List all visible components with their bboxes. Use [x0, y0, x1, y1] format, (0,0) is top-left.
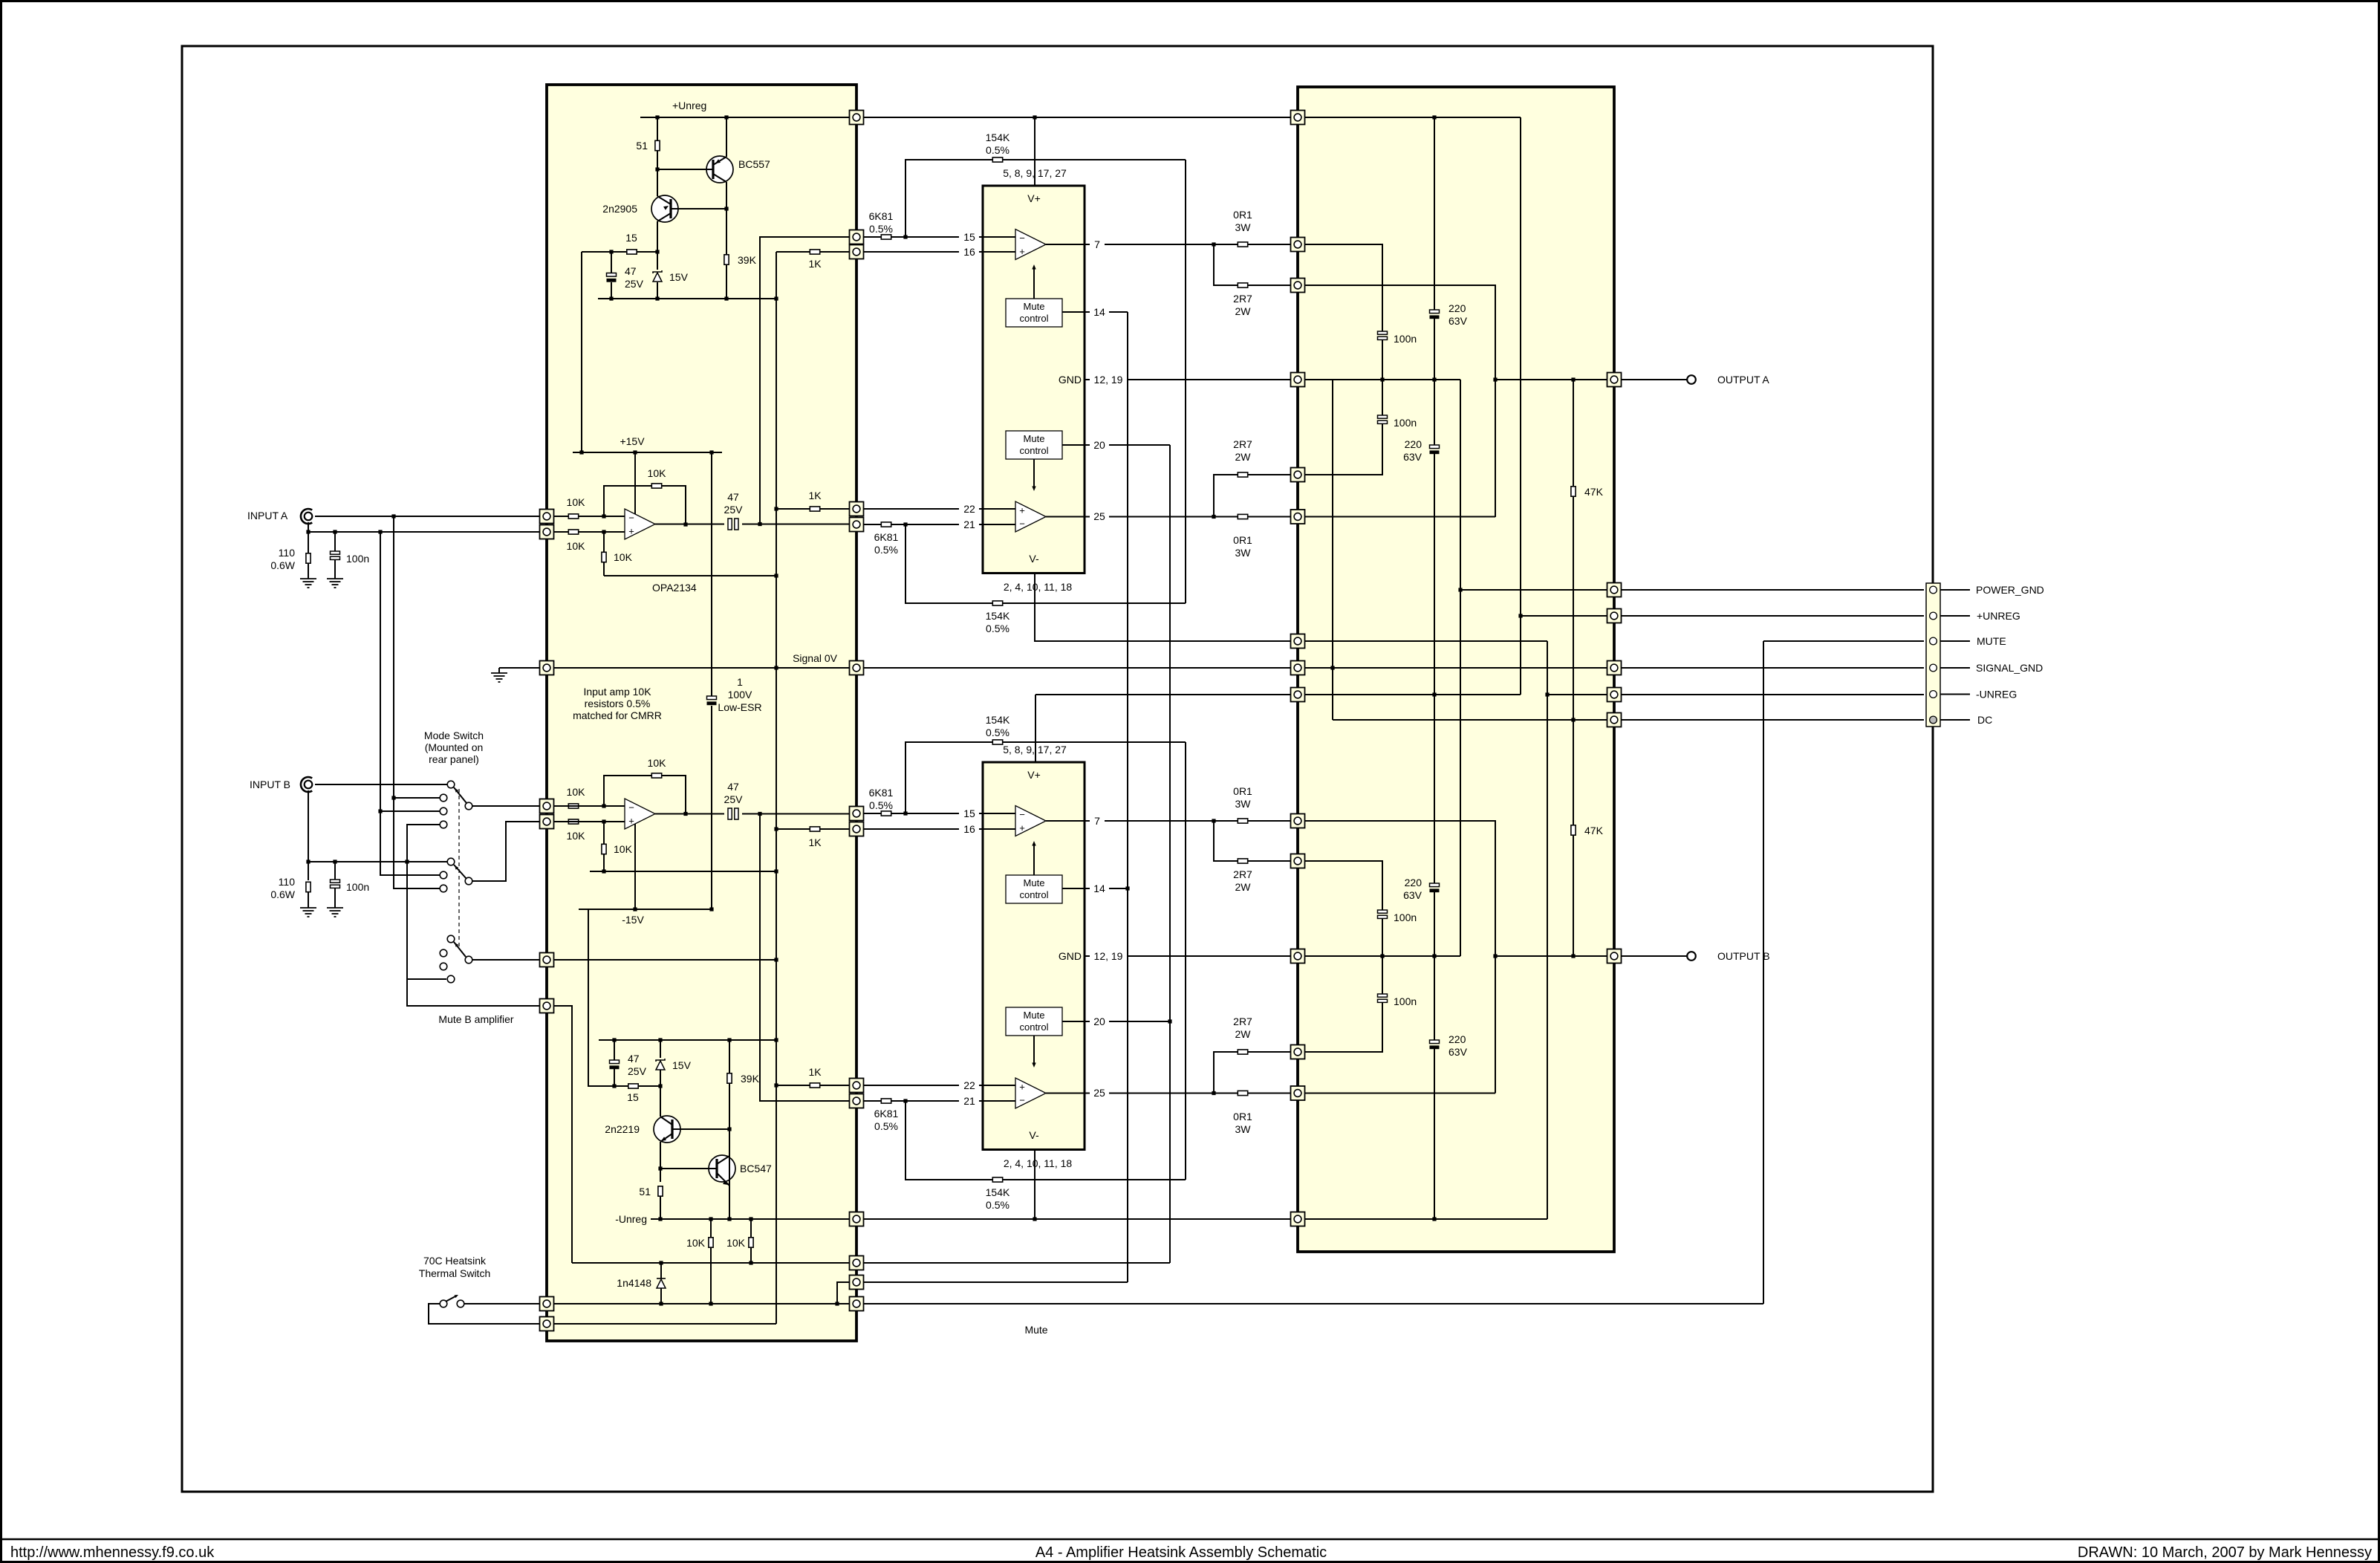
node reg A bottom at zener [655, 296, 659, 300]
node opamp A output to feedback [683, 522, 687, 526]
wire bias B to signal bus [590, 871, 776, 872]
wire pin7 B tick [1085, 820, 1090, 822]
wire mute bus 2 bottom row [863, 1262, 1170, 1264]
resistor 6K81 0.5% (chip B pin15) [881, 811, 891, 816]
wire chip B pin16 inside [983, 828, 1015, 830]
wire 154K B2 to east riser [1003, 1179, 1186, 1180]
pad 2R7 B2 right block west [1291, 1045, 1305, 1059]
wire SIGNAL_GND row inside [1304, 667, 1607, 669]
wire 1K A1 to pad [820, 251, 850, 253]
wire Mute bottom row [863, 1303, 1763, 1304]
svg-text:0R1: 0R1 [1233, 1111, 1252, 1122]
svg-text:2W: 2W [1235, 1028, 1252, 1040]
pad input A return at block edge [540, 525, 554, 539]
node signal bus at 1K A [774, 507, 778, 510]
capacitor 47 25V (output series B) [728, 808, 738, 819]
pad SIGNAL_GND right block west [1291, 661, 1305, 675]
node reg A bottom to signal bus [774, 296, 778, 300]
wire 100n A1 to GND row [1382, 340, 1383, 380]
node 15R zener junction [655, 250, 659, 253]
svg-text:16: 16 [963, 823, 975, 835]
node -15V at rail cap [709, 907, 713, 911]
svg-text:25V: 25V [724, 504, 744, 516]
svg-text:2R7: 2R7 [1233, 868, 1252, 880]
wire BC547 column to -Unreg [729, 1129, 730, 1219]
pad -unreg feed right block west [1291, 634, 1305, 649]
wire series cap A to pad [742, 524, 850, 525]
resistor 1K (chip B +in upper) [810, 827, 819, 831]
svg-text:control: control [1019, 1021, 1048, 1033]
svg-text:47: 47 [727, 781, 739, 793]
pad chip A pin16 feed [850, 245, 864, 259]
wire chip B pin15 inside [983, 813, 1015, 814]
node input A return at connector [306, 530, 310, 533]
svg-text:154K: 154K [986, 610, 1010, 622]
wire 39K B column [729, 1040, 730, 1073]
node mute aux jog [835, 1302, 839, 1305]
svg-text:12, 19: 12, 19 [1094, 374, 1123, 386]
wire 154K A2 loop [905, 524, 992, 603]
wire 2R7 B1 to 100n B1 [1304, 861, 1382, 910]
connector pin +UNREG [1930, 612, 1937, 620]
wire chip A upper output inside [1046, 244, 1085, 245]
resistor 2R7 2W (chip A upper zobel) [1238, 283, 1247, 287]
resistor 110 0.6W (input B termination) [306, 882, 310, 891]
wire pin20 B row [1109, 1021, 1170, 1022]
svg-text:21: 21 [963, 519, 975, 530]
switch S2 pole contact [465, 956, 472, 964]
resistor 154K 0.5% (chip B upper fb) [992, 740, 1002, 744]
svg-text:OUTPUT A: OUTPUT A [1717, 374, 1769, 386]
svg-text:OPA2134: OPA2134 [652, 582, 697, 594]
pad OUTPUT B right block east [1607, 949, 1622, 964]
capacitor 47 25V (output series A) [728, 519, 738, 530]
svg-text:1K: 1K [808, 836, 822, 848]
svg-text:0.5%: 0.5% [869, 223, 893, 235]
svg-text:GND: GND [1059, 950, 1082, 962]
svg-text:0.6W: 0.6W [270, 888, 295, 900]
wire -Unreg B inside right block [1304, 1218, 1547, 1220]
wire -unreg riser east [1547, 641, 1548, 1219]
svg-text:10K: 10K [567, 496, 586, 508]
svg-text:2W: 2W [1235, 451, 1252, 463]
node 220uF B2 bottom on -unreg [1432, 1217, 1436, 1221]
svg-text:Input amp 10K: Input amp 10K [583, 686, 651, 698]
wire inter-rail cap column [711, 452, 712, 696]
svg-text:3W: 3W [1235, 1123, 1252, 1135]
svg-text:+: + [1019, 246, 1025, 257]
capacitor 100n (zobel A lower) [1378, 415, 1388, 423]
2n2219 base wire [672, 1128, 729, 1130]
svg-text:A4 - Amplifier Heatsink Assemb: A4 - Amplifier Heatsink Assembly Schemat… [1035, 1544, 1327, 1561]
mute control block A2 [1006, 431, 1062, 459]
node x548 at input B return [405, 860, 409, 863]
wire +Unreg across gap [863, 117, 1291, 118]
BC557 base wire [657, 169, 713, 170]
svg-text:10K: 10K [726, 1237, 746, 1249]
node 100n B top [333, 860, 336, 863]
svg-text:100V: 100V [728, 689, 752, 701]
svg-text:10K: 10K [648, 467, 667, 479]
node A-return stub [378, 809, 382, 813]
chip U2 body (channel B power amp IC) [983, 762, 1085, 1150]
op-amp U3A OPA2134 (input buffer A) [625, 509, 655, 539]
wire -UNREG row east [1547, 694, 1607, 695]
resistor 1K (chip B +in lower) [810, 1083, 819, 1088]
wire -Unreg B rail across gap [863, 1218, 1291, 1220]
wire A-hot stub [394, 797, 440, 799]
capacitor 1 100V Low-ESR (rail decoupling) [707, 696, 717, 705]
wire pin21 B row [863, 1100, 959, 1102]
switch S1b fixed contact (input B return) [447, 858, 455, 865]
wire signal gnd tie riser [1332, 380, 1333, 720]
wire feedback A upper [604, 486, 686, 524]
wire 47uF A column [611, 252, 612, 273]
wire pin16 B row [863, 828, 959, 830]
wire pin14 B tick [1085, 888, 1090, 889]
wire chip B pin21 inside [983, 1100, 1015, 1102]
svg-text:GND: GND [1059, 374, 1082, 386]
node A-hot stub [391, 796, 395, 799]
resistor 6K81 0.5% (chip A pin15) [881, 235, 891, 239]
mute control block B1 [1006, 875, 1062, 903]
wire pin15 A row [863, 236, 959, 238]
wire -15V rail [579, 909, 712, 910]
wire OUTPUT A row east [1495, 379, 1607, 380]
node diode top on mute drive row [659, 1261, 663, 1264]
2n2905 base wire [671, 208, 726, 209]
svg-text:INPUT A: INPUT A [247, 510, 288, 521]
ground symbol input B termination [300, 908, 316, 917]
footer separator line [0, 1538, 2380, 1541]
wire -UNREG to connector [1621, 694, 1924, 695]
node mode select at bus [774, 958, 778, 961]
node 2R7 A2 branch [1212, 515, 1215, 519]
svg-text:0.5%: 0.5% [874, 1120, 898, 1132]
arrow mute A1 to opamp [1032, 264, 1035, 270]
wire +UNREG stub [1940, 615, 1970, 617]
wire +Unreg inside right block [1304, 117, 1521, 118]
pad +UNREG right block east [1607, 609, 1622, 623]
pad 2R7 A1 right block west [1291, 279, 1305, 293]
svg-text:39K: 39K [741, 1073, 760, 1085]
svg-text:+: + [628, 816, 634, 827]
transistor Q4 BC547 [709, 1155, 735, 1182]
wire SIGNAL_GND to connector [1621, 667, 1924, 669]
connector strip body [1926, 583, 1940, 727]
wire 100n A to ground [334, 560, 336, 579]
wire chip A pin15 inside [983, 236, 1015, 238]
svg-text:Thermal Switch: Thermal Switch [419, 1267, 490, 1279]
svg-text:10K: 10K [614, 843, 633, 855]
svg-text:(Mounted on: (Mounted on [425, 741, 484, 753]
pad GND A right block west [1291, 373, 1305, 387]
node reg B rail at 39K [727, 1038, 731, 1042]
wire 220uF column [1434, 117, 1435, 310]
svg-text:51: 51 [639, 1186, 651, 1198]
BC547 base wire [660, 1168, 717, 1169]
wire 154K A1 loop [905, 160, 992, 237]
wire -15V stub to opamp B [634, 824, 636, 909]
wire opamp A output [655, 524, 724, 525]
node 47uF A top [609, 250, 613, 253]
pad -Unreg B right block west [1291, 1212, 1305, 1226]
svg-text:25V: 25V [625, 278, 644, 290]
arrow mute B2 to opamp [1032, 1063, 1035, 1068]
resistor 1K (chip A pin16 feed) [810, 250, 819, 254]
wire GND B row to 100n B2 [1382, 956, 1383, 994]
wire 100n A2 to 2R7 A2 pad [1304, 424, 1382, 475]
op-amp chip B lower [1015, 1078, 1046, 1108]
wire mute drive row (pin20s) [572, 1262, 850, 1264]
wire 39K to bottom rail [726, 264, 727, 299]
svg-text:15: 15 [963, 808, 975, 819]
resistor 0R1 3W (chip A upper out) [1238, 242, 1247, 247]
wire -Unreg rail in left block [651, 1218, 850, 1220]
output terminal OUTPUT A [1687, 375, 1696, 384]
svg-text:http://www.mhennessy.f9.co.uk: http://www.mhennessy.f9.co.uk [10, 1544, 215, 1561]
zener diode 15V (reg B) [656, 1059, 665, 1070]
svg-text:25V: 25V [628, 1065, 647, 1077]
svg-text:154K: 154K [986, 131, 1010, 143]
wire chip A pin22 inside [983, 508, 1015, 510]
node 2R7 B2 branch [1212, 1091, 1215, 1095]
wire GND row to 100n A2 [1382, 380, 1383, 415]
BC547 emitter arrow [723, 1180, 728, 1185]
pad mute aux east [850, 1276, 864, 1290]
svg-text:110: 110 [279, 876, 296, 888]
svg-text:22: 22 [963, 503, 975, 515]
svg-text:+: + [1019, 505, 1025, 516]
svg-text:15: 15 [627, 1091, 639, 1103]
2n2219 collector/emitter diagonals [660, 1117, 672, 1125]
node 47uF B top [612, 1038, 616, 1042]
op-amp U3B OPA2134 (input buffer B) [625, 799, 655, 829]
pad -UNREG right block east [1607, 688, 1622, 702]
wire thermal switch right to pad [464, 1303, 540, 1304]
node BC547 base [658, 1166, 662, 1170]
node output A riser at OUTPUT row [1493, 377, 1497, 381]
resistor 10K (input A hot) [568, 514, 578, 519]
wire opamp B output [655, 813, 724, 815]
wire 110B to ground [308, 892, 309, 908]
svg-text:3W: 3W [1235, 547, 1252, 559]
svg-text:1K: 1K [808, 258, 822, 270]
svg-text:1K: 1K [808, 490, 822, 501]
wire pin22 B row [863, 1085, 959, 1086]
wire +15V stub to opamp A [634, 452, 636, 514]
wire mute B stub [407, 978, 446, 980]
node input B return at connector [306, 860, 310, 863]
svg-text:10K: 10K [686, 1237, 706, 1249]
wire chip B V- drop to -unreg B rail [1034, 1150, 1035, 1220]
svg-text:Mute: Mute [1024, 433, 1045, 444]
pad mute row east [850, 1297, 864, 1311]
resistor 0R1 3W (chip A lower out) [1238, 514, 1247, 519]
wire pin15 B row [863, 813, 959, 814]
wire -unreg feed inside right block [1304, 640, 1547, 642]
resistor 47K (output A bleed) [1571, 487, 1576, 496]
resistor 15 (reg B) [628, 1084, 638, 1088]
wire connector A sleeve drop [308, 522, 309, 553]
resistor 10K (input B return) [568, 819, 578, 824]
wire BC557 column lower to 39K [726, 182, 727, 255]
wire mode switch feed from A hot (x=530) [394, 516, 440, 888]
wire input B hot to switch [315, 784, 447, 785]
node +15V at rail cap [709, 450, 713, 454]
wire 100n B to ground [334, 888, 336, 909]
wire 1n4148 column [660, 1263, 662, 1278]
pad mute B amplifier [540, 999, 554, 1013]
switch S1b arrow [455, 865, 458, 870]
svg-text:3W: 3W [1235, 798, 1252, 810]
svg-text:100n: 100n [1394, 417, 1417, 429]
svg-text:47: 47 [625, 265, 637, 277]
resistor 51 (reg B) [658, 1186, 663, 1196]
wire 154K B2 loop [905, 1101, 992, 1180]
pad chip B pin22 feed [850, 1079, 864, 1093]
connector pin MUTE [1930, 637, 1937, 645]
switch S1a pole contact [465, 802, 472, 810]
stub contact lower A-hot [440, 885, 447, 892]
wire signal 0V inside left block [553, 667, 850, 669]
wire mute B amp run [407, 979, 540, 1006]
wire pin16 A row [863, 251, 959, 253]
resistor 110 0.6W (input A termination) [306, 553, 310, 563]
stub contact wire from A hot [440, 794, 447, 802]
svg-text:0R1: 0R1 [1233, 209, 1252, 221]
wire mute A1 arrow line [1033, 269, 1035, 299]
pad OUTPUT A right block east [1607, 373, 1622, 387]
svg-text:6K81: 6K81 [874, 1108, 899, 1120]
wire pin20 A tick [1085, 444, 1090, 446]
svg-text:resistors 0.5%: resistors 0.5% [585, 698, 651, 709]
wire S2 pole to pad [472, 959, 540, 961]
capacitor 220 63V (B -rail) [1430, 1040, 1440, 1049]
wire 2R7 A1 branch [1214, 244, 1291, 285]
wire mute B1 arrow line [1033, 845, 1035, 875]
pad 2R7 A2 right block west [1291, 468, 1305, 482]
switch S1a fixed contact (input B hot) [447, 781, 455, 788]
svg-text:control: control [1019, 445, 1048, 456]
stub contact wire from A return [440, 808, 447, 815]
node +15V at opamp stub [633, 450, 637, 454]
wire MUTE riser [1763, 641, 1764, 1304]
svg-text:15V: 15V [672, 1059, 692, 1071]
svg-text:47: 47 [628, 1053, 640, 1065]
resistor 10K (opamp A feedback) [651, 484, 661, 488]
mode switch mechanical dashed link [458, 789, 460, 949]
wire pin25 A node row [1304, 516, 1495, 518]
wire 1K B pin16 row [776, 828, 850, 830]
wire riser reg B [588, 909, 628, 1086]
node reg B rail at zener [658, 1038, 662, 1042]
svg-text:10K: 10K [648, 757, 667, 769]
wire signal 0V outside block [506, 667, 540, 669]
wire 10K to opamp A inverting [604, 516, 625, 517]
svg-text:−: − [1019, 1095, 1025, 1106]
wire pin14 A row [1109, 311, 1128, 313]
pad +unreg local right block west [1291, 688, 1305, 702]
svg-text:SIGNAL_GND: SIGNAL_GND [1976, 662, 2043, 674]
svg-text:2W: 2W [1235, 305, 1252, 317]
resistor 10K (opamp B + bias) [602, 844, 606, 854]
svg-text:matched for CMRR: matched for CMRR [573, 709, 662, 721]
wire 15R row [582, 251, 657, 253]
node 220uF A1 top [1432, 115, 1436, 119]
svg-text:2, 4, 10, 11, 18: 2, 4, 10, 11, 18 [1004, 1157, 1073, 1169]
wire input A return [308, 531, 542, 533]
wire chip A pin16 inside [983, 251, 1015, 253]
node opamp A inverting input [602, 514, 605, 518]
node 100n A top [333, 530, 336, 533]
pad +Unreg left block east [850, 111, 864, 125]
wire 10K bias B drop [603, 822, 605, 871]
ground symbol input B cap [327, 908, 343, 917]
power device board block (right) [1298, 87, 1614, 1252]
wire OUTPUT B to terminal [1621, 955, 1687, 957]
wire mute B inside riser [553, 1006, 572, 1263]
node +Unreg at chip A V+ [1033, 115, 1036, 119]
switch S2 arrow [455, 943, 458, 947]
thermal switch arrow [455, 1295, 458, 1298]
wire 1K A pin22 row [776, 508, 850, 510]
switch S2 fixed contact [447, 935, 455, 943]
connector pin SIGNAL_GND [1930, 664, 1937, 672]
pad 0R1 A1 right block west [1291, 238, 1305, 252]
svg-text:Mode Switch: Mode Switch [424, 729, 484, 741]
schematic main frame [182, 46, 1933, 1492]
svg-text:6K81: 6K81 [869, 210, 894, 222]
svg-text:+Unreg: +Unreg [672, 100, 706, 111]
wire 51B to -Unreg [660, 1196, 661, 1219]
svg-text:21: 21 [963, 1095, 975, 1107]
switch S2 lever [454, 942, 466, 957]
wire +Unreg rail [640, 117, 850, 118]
node signal gnd tie at SIGNAL_GND row [1330, 666, 1334, 669]
BC557 emitter arrow [715, 159, 721, 163]
node reg A bottom at 39K [724, 296, 728, 300]
svg-text:100n: 100n [1394, 333, 1417, 345]
pad opamp B non-inverting input [540, 815, 554, 829]
capacitor 220 63V (B +rail) [1430, 883, 1440, 892]
wire 10K pull2 column [750, 1219, 752, 1238]
svg-text:V-: V- [1029, 553, 1039, 565]
svg-text:12, 19: 12, 19 [1094, 950, 1123, 962]
wire chip A pin14 inside [1062, 311, 1085, 313]
wire mute bus 2 (pin20s) [1169, 445, 1171, 1263]
wire 10K pull1 column [710, 1219, 712, 1238]
resistor 2R7 2W (chip B lower zobel) [1238, 1050, 1247, 1054]
node 2n2219 base on 39K column [727, 1127, 731, 1131]
wire DC sense row [1333, 719, 1607, 721]
wire +unreg east riser [1520, 117, 1521, 695]
wire GND riser to POWER_GND and GND B [1460, 380, 1461, 956]
wire reg A bottom rail [598, 298, 776, 299]
wire chip A pin21 inside [983, 524, 1015, 525]
wire pin7B node to output riser [1304, 821, 1495, 1094]
wire chip A lower output inside [1046, 516, 1085, 518]
svg-text:10K: 10K [567, 540, 586, 552]
svg-text:2, 4, 10, 11, 18: 2, 4, 10, 11, 18 [1004, 581, 1073, 593]
wire pin7 A tick [1085, 244, 1090, 245]
pad 0R1 B2 right block west [1291, 1086, 1305, 1100]
svg-text:2n2905: 2n2905 [602, 203, 637, 215]
wire riser reg A to +15V rail [581, 252, 582, 452]
stub circle x548 bottom [447, 975, 455, 983]
node 2R7 B1 branch [1212, 819, 1215, 822]
capacitor 47 25V (reg B) [610, 1060, 620, 1069]
